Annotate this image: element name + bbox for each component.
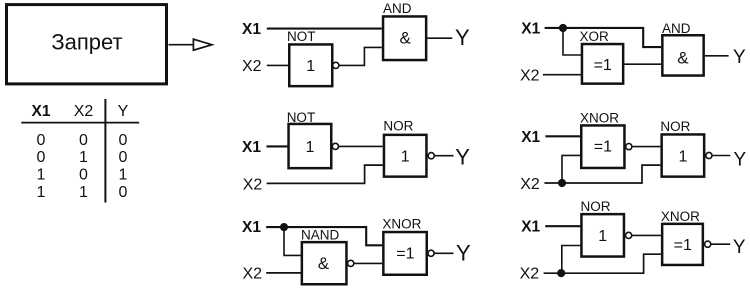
AND gate D2 (circuit 4)	[662, 21, 704, 76]
XNOR gate D1 (circuit 5)	[580, 111, 624, 168]
wire X2 to XNOR gate bottom input (circuit 6)	[544, 254, 661, 273]
wire XOR output to AND gate bottom input (circuit 4)	[624, 63, 661, 65]
wire X2 to NOR gate bottom input (circuit 2)	[267, 165, 383, 183]
svg-text:X1: X1	[242, 139, 261, 156]
svg-text:X2: X2	[74, 103, 94, 120]
svg-text:NOR: NOR	[383, 118, 413, 133]
svg-text:1: 1	[598, 228, 607, 245]
output arrow of function block	[169, 39, 212, 50]
svg-text:XNOR: XNOR	[661, 209, 700, 224]
NOR gate output inversion bubble (circuit 6)	[626, 232, 632, 238]
function block Запрет	[7, 5, 167, 84]
wire NAND output to XNOR gate bottom input (circuit 3)	[354, 262, 382, 264]
NOR gate D1 (circuit 6)	[581, 199, 624, 257]
svg-text:=1: =1	[674, 237, 692, 254]
XOR gate D1 (circuit 4)	[580, 29, 624, 83]
truth table row 1	[37, 132, 128, 149]
wire XNOR output to NOR gate top input (circuit 5)	[632, 146, 661, 148]
svg-text:NOT: NOT	[287, 29, 316, 44]
junction dot on X2 (circuit 6)	[557, 269, 565, 277]
truth table header	[32, 103, 129, 120]
svg-text:Y: Y	[455, 144, 470, 169]
svg-text:AND: AND	[383, 1, 412, 16]
wire X2 branch to NOR gate bottom input (circuit 6)	[562, 246, 582, 274]
wire X1 to XNOR gate top input (circuit 5)	[545, 135, 581, 137]
NOT gate D1 (circuit 1)	[287, 29, 332, 86]
junction dot on X2 (circuit 5)	[558, 179, 566, 187]
wire X2 to NOT gate input (circuit 1)	[267, 64, 289, 66]
svg-text:X1: X1	[521, 219, 540, 236]
svg-text:Y: Y	[733, 237, 746, 258]
svg-text:X1: X1	[521, 20, 540, 37]
svg-text:XOR: XOR	[580, 29, 610, 44]
wire X1 to NOR gate top input (circuit 6)	[545, 225, 581, 227]
wire XNOR output to Y (circuit 3)	[434, 252, 453, 254]
AND gate D2 (circuit 1)	[383, 1, 426, 60]
NOT gate output inversion bubble (circuit 1)	[333, 62, 339, 68]
wire NOR output to Y (circuit 5)	[712, 155, 730, 157]
wire X2 to XOR gate bottom input (circuit 4)	[543, 74, 582, 76]
NAND gate D1 (circuit 3)	[301, 227, 346, 284]
svg-text:X2: X2	[243, 177, 263, 194]
NAND gate output inversion bubble (circuit 3)	[348, 260, 354, 266]
svg-text:1: 1	[678, 148, 687, 165]
svg-text:X2: X2	[520, 266, 540, 283]
svg-text:XNOR: XNOR	[382, 216, 421, 231]
svg-text:=1: =1	[594, 138, 612, 155]
wire AND output to Y (circuit 4)	[705, 55, 729, 57]
wire X1 to NOT gate input (circuit 2)	[267, 145, 289, 147]
wire NOT output to AND gate bottom input (circuit 1)	[339, 47, 382, 65]
svg-text:X1: X1	[32, 103, 51, 120]
svg-text:&: &	[400, 28, 412, 47]
junction dot on X1 (circuit 3)	[280, 223, 288, 231]
svg-text:AND: AND	[662, 21, 691, 36]
svg-text:&: &	[677, 49, 689, 68]
NOT gate output inversion bubble (circuit 2)	[332, 143, 338, 149]
svg-text:XNOR: XNOR	[580, 111, 619, 126]
svg-text:&: &	[318, 254, 330, 273]
wire XNOR output to Y (circuit 6)	[711, 243, 730, 245]
svg-text:X2: X2	[520, 176, 540, 193]
svg-text:1: 1	[119, 166, 128, 183]
svg-text:NOR: NOR	[581, 199, 611, 214]
NOR gate output inversion bubble (circuit 2)	[428, 153, 434, 159]
svg-text:1: 1	[79, 184, 88, 201]
svg-text:Y: Y	[733, 47, 746, 68]
svg-text:X1: X1	[242, 219, 261, 236]
truth table vertical rule	[104, 99, 106, 203]
svg-text:0: 0	[79, 132, 88, 149]
svg-text:=1: =1	[594, 57, 612, 74]
svg-text:Запрет: Запрет	[51, 29, 122, 54]
truth table row 2	[37, 149, 128, 166]
svg-text:0: 0	[119, 184, 128, 201]
truth table row 4	[37, 184, 128, 201]
wire X2 branch to XNOR gate bottom input (circuit 5)	[562, 155, 581, 183]
svg-text:X2: X2	[520, 68, 540, 85]
svg-text:1: 1	[306, 139, 315, 156]
NOR gate output inversion bubble (circuit 5)	[706, 152, 712, 158]
wire X2 to NOR gate bottom input (circuit 5)	[544, 165, 660, 183]
svg-text:X2: X2	[243, 266, 263, 283]
junction dot on X1 (circuit 4)	[559, 24, 567, 32]
svg-text:0: 0	[79, 166, 88, 183]
XNOR gate D2 (circuit 6)	[661, 209, 703, 265]
wire X1 to XNOR gate top input (circuit 3)	[266, 227, 382, 245]
svg-text:=1: =1	[396, 246, 414, 263]
svg-text:0: 0	[119, 149, 128, 166]
wire X2 to NAND gate bottom input (circuit 3)	[266, 272, 302, 274]
svg-text:Y: Y	[733, 149, 746, 170]
XNOR gate output inversion bubble (circuit 3)	[428, 250, 434, 256]
svg-text:Y: Y	[118, 103, 129, 120]
wire NOR output to XNOR gate top input (circuit 6)	[632, 234, 661, 236]
wire X1 branch to NAND gate top input (circuit 3)	[284, 227, 301, 255]
truth table row 3	[37, 166, 128, 183]
wire X1 to AND gate top input (circuit 4)	[545, 28, 662, 47]
NOR gate D2 (circuit 2)	[383, 118, 426, 176]
svg-text:1: 1	[306, 58, 315, 75]
XNOR gate output inversion bubble (circuit 6)	[705, 241, 711, 247]
svg-text:0: 0	[119, 132, 128, 149]
svg-text:X2: X2	[242, 58, 262, 75]
wire AND output to Y (circuit 1)	[427, 37, 452, 39]
svg-text:0: 0	[37, 132, 46, 149]
wire X1 to AND gate top input (circuit 1)	[267, 28, 382, 30]
svg-text:Y: Y	[455, 25, 470, 50]
wire X1 branch to XOR gate top input (circuit 4)	[563, 28, 582, 55]
svg-text:NAND: NAND	[301, 227, 340, 242]
svg-text:1: 1	[401, 149, 410, 166]
svg-text:NOR: NOR	[660, 119, 690, 134]
NOT gate D1 (circuit 2)	[287, 110, 332, 168]
XNOR gate output inversion bubble (circuit 5)	[626, 144, 632, 150]
svg-text:1: 1	[79, 149, 88, 166]
svg-text:0: 0	[37, 149, 46, 166]
XNOR gate D2 (circuit 3)	[382, 216, 426, 274]
svg-text:X1: X1	[521, 129, 540, 146]
svg-text:1: 1	[37, 184, 46, 201]
wire NOT output to NOR gate top input (circuit 2)	[339, 145, 383, 147]
svg-text:1: 1	[37, 166, 46, 183]
svg-text:Y: Y	[456, 241, 471, 266]
truth table horizontal rule	[21, 122, 139, 124]
wire NOR output to Y (circuit 2)	[434, 155, 453, 157]
svg-text:X1: X1	[242, 21, 261, 38]
NOR gate D2 (circuit 5)	[660, 119, 704, 177]
